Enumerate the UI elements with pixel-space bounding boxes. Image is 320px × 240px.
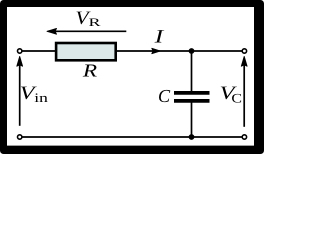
wire capacitor top lead [191,51,193,92]
svg-text:C: C [158,86,171,106]
arrow V_in (points up) [17,56,23,125]
svg-text:in: in [34,90,48,105]
node junction bottom [189,134,195,140]
wire top-left: left terminal to resistor [22,50,58,52]
wire bottom: left terminal to right terminal [22,136,243,138]
resistor R [56,43,116,60]
svg-text:C: C [231,90,242,105]
arrow I (current, points right) [152,48,161,53]
arrow V_R (points left) [47,28,126,34]
terminal top-right [242,49,246,53]
terminal bottom-right [242,135,246,139]
wire capacitor bottom lead [191,103,193,138]
capacitor C plate top [174,91,210,95]
arrow V_C (points up) [241,56,247,126]
terminal bottom-left [18,135,22,139]
svg-text:R: R [89,17,102,29]
terminal top-left [18,49,22,53]
svg-text:R: R [82,61,97,81]
node junction top [189,48,195,54]
wire top-right: resistor to right terminal [116,50,243,52]
capacitor C plate bottom [174,99,210,103]
